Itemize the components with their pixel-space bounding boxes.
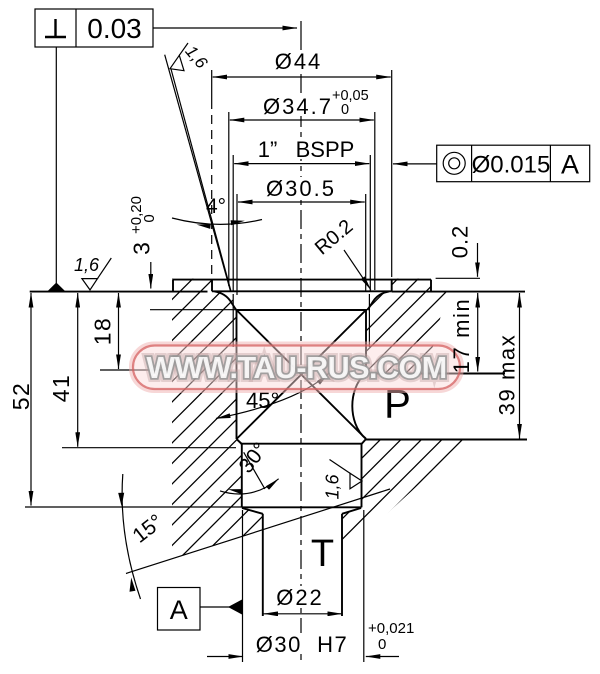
T hole wall right (341, 514, 343, 616)
svg-text:4°: 4° (206, 195, 226, 218)
thread major dia line left (232, 294, 234, 347)
watermark (131, 344, 462, 392)
boss right edge (430, 280, 432, 292)
counterbore bottom face edge (236, 309, 367, 311)
leader from frame to axis (153, 27, 297, 29)
svg-text:Ø34.7: Ø34.7 (263, 94, 333, 119)
concentricity frame (393, 145, 590, 182)
svg-text:0: 0 (341, 102, 349, 118)
svg-text:18: 18 (90, 317, 116, 346)
pilot wall right (361, 444, 363, 507)
17 min dimension (477, 293, 479, 372)
svg-text:17 min: 17 min (449, 298, 474, 374)
svg-text:1,6: 1,6 (74, 255, 100, 275)
dia 30 H7 dimension (207, 510, 414, 662)
hatch left block (172, 279, 263, 559)
svg-text:3: 3 (129, 242, 155, 255)
pilot bottom face (242, 506, 362, 508)
P gallery bottom (366, 439, 528, 441)
svg-text:1” BSPP: 1” BSPP (258, 137, 355, 162)
52 dimension (8, 293, 34, 506)
30 deg arc (220, 479, 279, 494)
svg-text:Ø22: Ø22 (276, 585, 324, 610)
svg-text:+0,021: +0,021 (368, 620, 414, 637)
chamfer left bottom of bore (237, 439, 242, 444)
hatch right top block (366, 279, 447, 374)
bore wall right lower (365, 438, 367, 441)
spotface floor edge (seen through) (212, 290, 392, 292)
thread runout hook right (367, 291, 389, 310)
svg-text:WWW.TAU-RUS.COM: WWW.TAU-RUS.COM (146, 351, 446, 385)
svg-text:0.2: 0.2 (448, 225, 473, 259)
dia 44 dimension (212, 49, 392, 277)
18 dimension (90, 293, 173, 370)
1 inch BSPP dimension (233, 137, 370, 291)
bore wall left (236, 310, 238, 439)
svg-text:Ø44: Ø44 (275, 49, 323, 74)
svg-text:0: 0 (378, 636, 386, 653)
boss left edge (172, 280, 174, 292)
svg-text:A: A (170, 595, 188, 625)
svg-text:T: T (311, 533, 334, 575)
spotface right wall (391, 280, 393, 292)
svg-text:52: 52 (8, 382, 34, 411)
thread runout hook left (215, 291, 237, 310)
svg-text:A: A (561, 150, 579, 180)
0.2 dimension (436, 225, 480, 279)
chamfer to T hole left (242, 508, 263, 514)
39 max dimension (495, 293, 520, 439)
datum stem to surface (55, 47, 57, 283)
centerline axis (300, 21, 302, 40)
surface finish mark left surface (74, 255, 111, 290)
svg-text:0: 0 (141, 214, 158, 222)
extension of counterbore bottom to left (150, 309, 236, 311)
svg-text:0.03: 0.03 (87, 13, 142, 44)
P gallery far-wall bulge arc (352, 374, 366, 439)
svg-text:+0,05: +0,05 (332, 88, 369, 104)
cone line 2 (237, 310, 367, 439)
hatch right bottom block (342, 440, 468, 553)
dia 30.5 dimension (237, 176, 366, 295)
bore wall right upper (365, 310, 367, 374)
thread major dia line right (368, 294, 370, 347)
15 deg arrows (118, 493, 124, 507)
R0.2 label + leader (311, 215, 371, 289)
shoulder ring face (241, 443, 363, 445)
T hole wall left (262, 514, 264, 616)
main outline: top surface left (30, 291, 208, 293)
svg-text:41: 41 (48, 374, 74, 403)
15 deg section break line (126, 489, 390, 574)
41 dimension (48, 293, 236, 448)
P gallery top (366, 373, 505, 375)
spotface left wall (211, 280, 213, 292)
cone line 1 (237, 310, 367, 439)
A datum box bottom (158, 588, 243, 631)
15 deg arc (122, 474, 140, 599)
30 deg reference line (244, 452, 265, 489)
45 deg arc (216, 373, 329, 419)
boss top / sealing face edge (173, 279, 431, 281)
surface finish mark top (on 4deg line) (170, 42, 212, 73)
chamfer right bottom of bore (362, 439, 367, 444)
perpendicularity frame (35, 9, 153, 47)
dia 22 dimension (264, 585, 343, 614)
52 bottom extension line (25, 506, 242, 508)
svg-text:Ø30 H7: Ø30 H7 (256, 632, 348, 657)
svg-text:Ø0.015: Ø0.015 (472, 152, 551, 179)
3 +0,20 dimension (128, 196, 158, 288)
svg-text:39 max: 39 max (495, 334, 520, 416)
datum filled triangle on surface (48, 283, 65, 292)
surface finish mark in bore (on pilot wall) (323, 460, 363, 500)
4 deg arc (172, 218, 262, 224)
svg-text:Ø30.5: Ø30.5 (266, 176, 336, 201)
4 deg taper construction lines (165, 55, 231, 291)
top surface right (392, 291, 525, 293)
dia 34.7 dimension (229, 88, 375, 290)
pilot wall left (241, 444, 243, 507)
svg-text:1,6: 1,6 (323, 474, 343, 500)
chamfer to T hole right (342, 508, 361, 514)
